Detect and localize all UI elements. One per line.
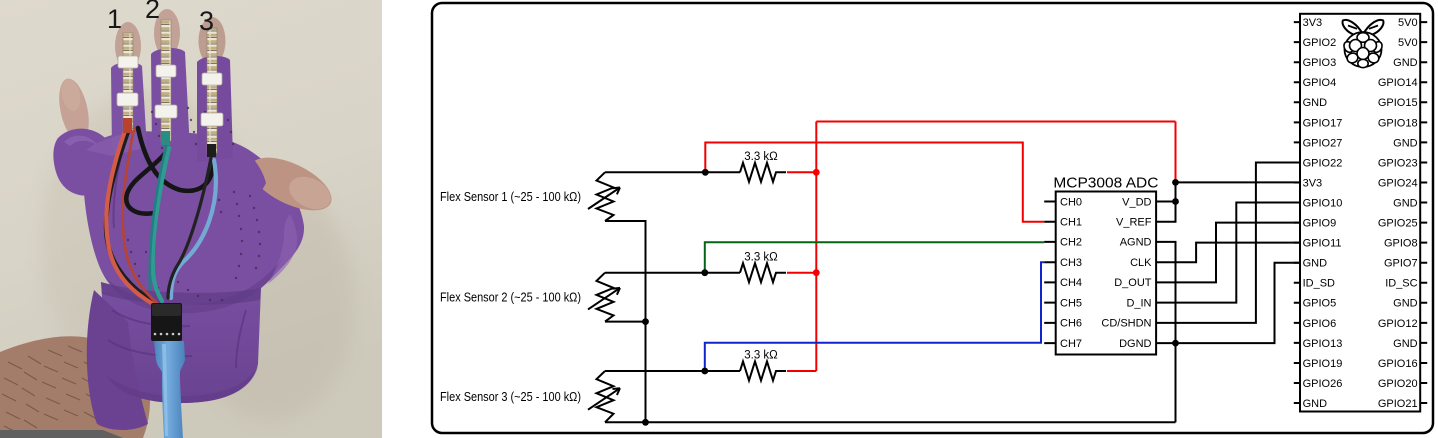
svg-text:GND: GND — [1393, 197, 1418, 209]
svg-text:GPIO19: GPIO19 — [1303, 358, 1343, 370]
svg-text:GPIO22: GPIO22 — [1303, 157, 1343, 169]
svg-text:GND: GND — [1393, 57, 1418, 69]
svg-text:GPIO12: GPIO12 — [1378, 318, 1418, 330]
svg-text:Flex Sensor 3 (~25 - 100 kΩ): Flex Sensor 3 (~25 - 100 kΩ) — [440, 390, 581, 404]
svg-text:GND: GND — [1393, 338, 1418, 350]
svg-text:3V3: 3V3 — [1303, 177, 1323, 189]
svg-text:3.3 kΩ: 3.3 kΩ — [744, 350, 778, 362]
svg-text:Flex Sensor 2 (~25 - 100 kΩ): Flex Sensor 2 (~25 - 100 kΩ) — [440, 291, 581, 305]
svg-text:Flex Sensor 1 (~25 - 100 kΩ): Flex Sensor 1 (~25 - 100 kΩ) — [440, 190, 581, 204]
svg-text:GPIO15: GPIO15 — [1378, 97, 1418, 109]
svg-text:2: 2 — [145, 0, 160, 24]
svg-text:GND: GND — [1303, 258, 1328, 270]
svg-text:CH1: CH1 — [1060, 217, 1082, 229]
svg-text:GPIO16: GPIO16 — [1378, 358, 1418, 370]
svg-text:GPIO27: GPIO27 — [1303, 137, 1343, 149]
svg-text:CH6: CH6 — [1060, 318, 1082, 330]
svg-text:GND: GND — [1393, 298, 1418, 310]
svg-text:3.3 kΩ: 3.3 kΩ — [744, 151, 778, 163]
svg-text:GND: GND — [1303, 398, 1328, 410]
svg-text:CH4: CH4 — [1060, 277, 1082, 289]
svg-text:GPIO24: GPIO24 — [1378, 177, 1418, 189]
svg-text:CH2: CH2 — [1060, 237, 1082, 249]
svg-text:CLK: CLK — [1130, 257, 1152, 269]
svg-text:3V3: 3V3 — [1303, 17, 1323, 29]
svg-text:CH7: CH7 — [1060, 338, 1082, 350]
svg-text:AGND: AGND — [1120, 237, 1152, 249]
svg-text:ID_SD: ID_SD — [1303, 278, 1335, 290]
svg-text:GPIO5: GPIO5 — [1303, 298, 1337, 310]
svg-text:GPIO21: GPIO21 — [1378, 398, 1418, 410]
svg-text:GND: GND — [1303, 97, 1328, 109]
svg-text:GPIO18: GPIO18 — [1378, 117, 1418, 129]
svg-text:5V0: 5V0 — [1398, 17, 1418, 29]
svg-text:3.3 kΩ: 3.3 kΩ — [744, 251, 778, 263]
svg-text:GPIO10: GPIO10 — [1303, 197, 1343, 209]
svg-text:D_OUT: D_OUT — [1114, 277, 1152, 289]
svg-text:V_REF: V_REF — [1116, 217, 1152, 229]
svg-text:GPIO6: GPIO6 — [1303, 318, 1337, 330]
svg-text:GPIO2: GPIO2 — [1303, 37, 1337, 49]
svg-text:1: 1 — [107, 4, 122, 34]
svg-text:ID_SC: ID_SC — [1385, 278, 1417, 290]
svg-text:MCP3008 ADC: MCP3008 ADC — [1053, 176, 1158, 192]
svg-text:V_DD: V_DD — [1122, 196, 1151, 208]
svg-text:CD/SHDN: CD/SHDN — [1101, 318, 1151, 330]
svg-text:5V0: 5V0 — [1398, 37, 1418, 49]
svg-text:GPIO17: GPIO17 — [1303, 117, 1343, 129]
svg-text:GPIO7: GPIO7 — [1384, 258, 1418, 270]
svg-text:D_IN: D_IN — [1126, 297, 1151, 309]
svg-text:GPIO9: GPIO9 — [1303, 218, 1337, 230]
svg-text:DGND: DGND — [1119, 338, 1151, 350]
svg-text:GPIO23: GPIO23 — [1378, 157, 1418, 169]
svg-text:GPIO4: GPIO4 — [1303, 77, 1337, 89]
svg-text:3: 3 — [199, 6, 214, 36]
svg-text:GPIO3: GPIO3 — [1303, 57, 1337, 69]
svg-text:GPIO25: GPIO25 — [1378, 218, 1418, 230]
svg-text:GPIO20: GPIO20 — [1378, 378, 1418, 390]
svg-text:GPIO11: GPIO11 — [1303, 238, 1342, 250]
svg-text:CH0: CH0 — [1060, 196, 1082, 208]
svg-text:GPIO13: GPIO13 — [1303, 338, 1343, 350]
svg-text:GND: GND — [1393, 137, 1418, 149]
svg-text:GPIO14: GPIO14 — [1378, 77, 1418, 89]
svg-text:CH3: CH3 — [1060, 257, 1082, 269]
svg-text:CH5: CH5 — [1060, 297, 1082, 309]
svg-text:GPIO8: GPIO8 — [1384, 238, 1418, 250]
svg-text:GPIO26: GPIO26 — [1303, 378, 1343, 390]
